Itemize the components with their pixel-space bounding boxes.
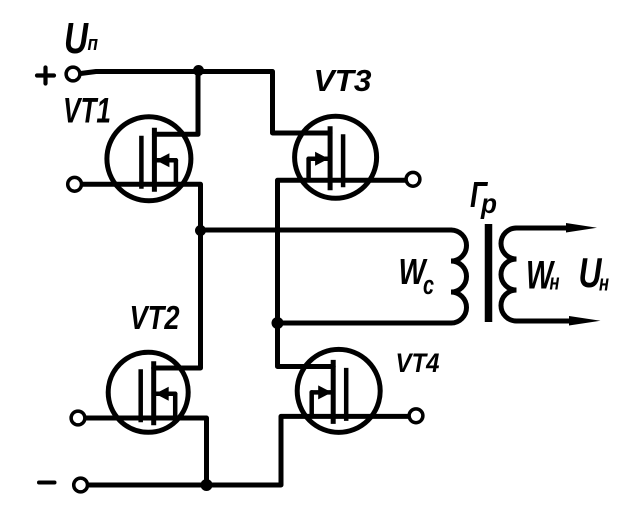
svg-text:п: п — [88, 33, 99, 55]
svg-text:U: U — [64, 14, 89, 63]
svg-text:VT3: VT3 — [314, 63, 372, 98]
svg-text:VT1: VT1 — [63, 92, 111, 131]
svg-text:c: c — [423, 270, 434, 300]
svg-text:н: н — [550, 270, 560, 295]
svg-text:р: р — [480, 188, 497, 219]
svg-text:н: н — [599, 271, 609, 296]
svg-text:VT4: VT4 — [396, 348, 440, 378]
svg-text:VT2: VT2 — [130, 299, 181, 336]
